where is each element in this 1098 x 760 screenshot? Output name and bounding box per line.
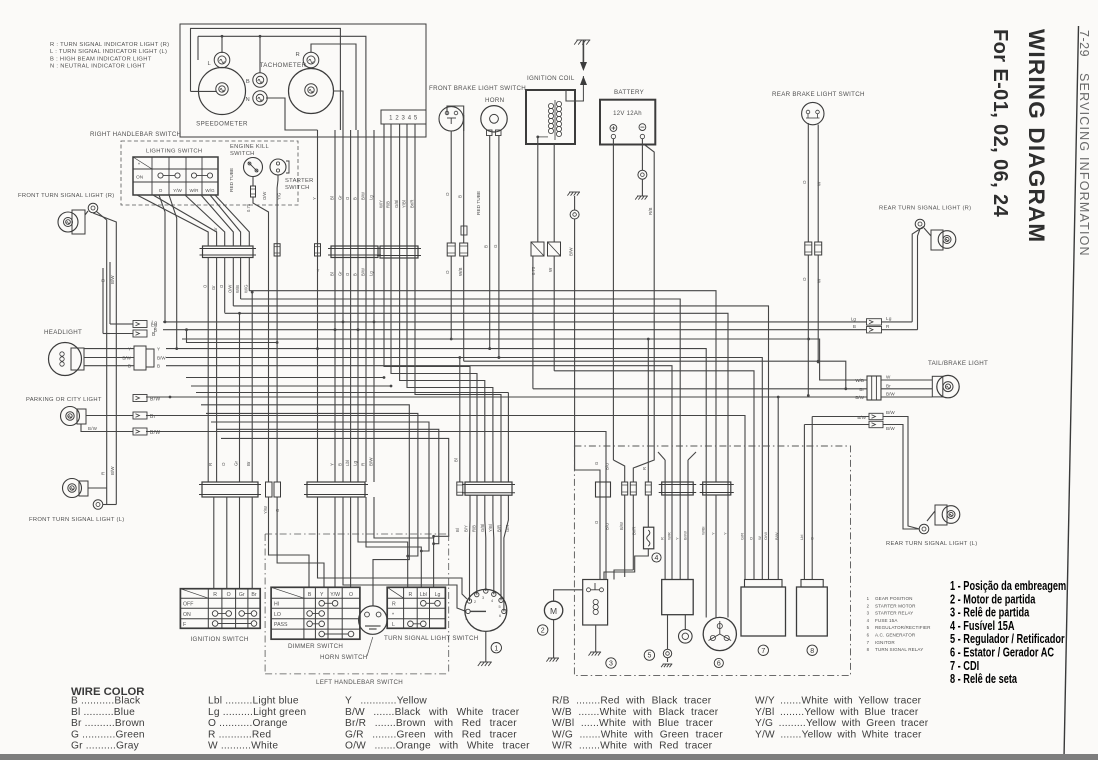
svg-text:HORN: HORN	[485, 97, 504, 104]
svg-text:O: O	[445, 270, 450, 274]
svg-text:Y/W: Y/W	[173, 188, 182, 193]
svg-text:W: W	[886, 375, 891, 380]
svg-text:Y/W: Y/W	[330, 592, 340, 598]
svg-text:Bl: Bl	[330, 196, 335, 200]
svg-text:Lg: Lg	[435, 592, 441, 598]
svg-text:SPEEDOMETER: SPEEDOMETER	[196, 121, 248, 128]
svg-text:Y: Y	[128, 347, 131, 352]
svg-text:R/B: R/B	[472, 525, 477, 532]
svg-text:GEAR POSITION: GEAR POSITION	[875, 596, 913, 601]
svg-text:SERVICING INFORMATION: SERVICING INFORMATION	[1077, 73, 1091, 257]
svg-text:6: 6	[499, 614, 501, 618]
svg-text:For E-01, 02, 06, 24: For E-01, 02, 06, 24	[989, 29, 1011, 218]
svg-text:B: B	[246, 79, 250, 85]
svg-text:W/Y .......White with Yellow t: W/Y .......White with Yellow tracer	[755, 696, 922, 707]
svg-text:8: 8	[810, 648, 814, 655]
svg-text:B/W .......Black with White: B/W .......Black with White tracer	[345, 707, 520, 718]
svg-text:W/B .......White with Black tr: W/B .......White with Black tracer	[552, 707, 719, 718]
svg-text:Lg: Lg	[369, 195, 374, 200]
svg-text:W/Bl ......White with Blue tra: W/Bl ......White with Blue tracer	[552, 718, 713, 729]
svg-text:Y/Bl: Y/Bl	[488, 524, 493, 532]
svg-text:TACHOMETER: TACHOMETER	[260, 62, 307, 69]
svg-text:Lg: Lg	[369, 271, 374, 276]
svg-text:L: L	[392, 622, 395, 628]
svg-text:Y/Bl: Y/Bl	[402, 200, 407, 208]
svg-text:HEADLIGHT: HEADLIGHT	[44, 329, 82, 336]
svg-text:B: B	[128, 364, 131, 369]
svg-text:Lg: Lg	[151, 320, 157, 326]
svg-text:Br/R: Br/R	[632, 527, 637, 535]
svg-text:PARKING OR CITY LIGHT: PARKING OR CITY LIGHT	[26, 397, 102, 403]
svg-text:Br/R: Br/R	[410, 200, 415, 208]
svg-text:B/O: B/O	[605, 522, 610, 530]
svg-text:G: G	[493, 244, 498, 248]
svg-text:STARTER MOTOR: STARTER MOTOR	[875, 603, 916, 608]
svg-text:B/W: B/W	[110, 466, 115, 475]
svg-text:Y: Y	[711, 532, 716, 535]
svg-text:2 - Motor de partida: 2 - Motor de partida	[950, 593, 1036, 607]
svg-text:B/O: B/O	[605, 462, 610, 470]
svg-text:ENGINE KILL: ENGINE KILL	[230, 144, 270, 150]
svg-text:Lg: Lg	[886, 316, 892, 321]
svg-text:Lbl: Lbl	[420, 592, 427, 598]
svg-text:IGNITION SWITCH: IGNITION SWITCH	[191, 636, 249, 643]
svg-text:W/B: W/B	[235, 285, 240, 293]
svg-text:B/W: B/W	[157, 356, 166, 361]
svg-text:SWITCH: SWITCH	[285, 185, 310, 191]
svg-text:REAR TURN SIGNAL LIGHT (R): REAR TURN SIGNAL LIGHT (R)	[879, 206, 971, 212]
svg-text:B/W: B/W	[569, 247, 574, 256]
svg-text:2: 2	[541, 628, 545, 635]
svg-text:IGNITION COIL: IGNITION COIL	[527, 75, 575, 82]
svg-text:B/W: B/W	[122, 356, 131, 361]
svg-text:5: 5	[498, 605, 500, 609]
svg-text:5: 5	[647, 653, 651, 660]
svg-text:Gr: Gr	[213, 227, 218, 232]
svg-text:R: R	[213, 592, 217, 598]
svg-text:W/G .......White with Green tr: W/G .......White with Green tracer	[552, 729, 723, 740]
svg-text:R/B: R/B	[386, 201, 391, 208]
svg-text:L : TURN SIGNAL INDICATOR LIGH: L : TURN SIGNAL INDICATOR LIGHT (L)	[50, 49, 167, 55]
svg-text:Y: Y	[317, 268, 320, 273]
svg-text:Y/Bl ........Yellow with Blue: Y/Bl ........Yellow with Blue tracer	[755, 707, 919, 718]
svg-text:R: R	[296, 52, 301, 58]
svg-text:ON: ON	[136, 175, 144, 181]
svg-text:B : HIGH BEAM INDICATOR LIGHT: B : HIGH BEAM INDICATOR LIGHT	[50, 56, 152, 62]
svg-text:B/W: B/W	[361, 192, 366, 200]
svg-text:STARTER: STARTER	[285, 178, 314, 184]
svg-text:4: 4	[655, 555, 659, 562]
svg-text:G/R ........Green with Red: G/R ........Green with Red tracer	[345, 729, 517, 740]
svg-text:B: B	[157, 364, 160, 369]
svg-text:*: *	[138, 163, 140, 169]
svg-text:R: R	[660, 537, 665, 540]
svg-text:*: *	[392, 613, 394, 619]
svg-text:0.75: 0.75	[246, 203, 251, 212]
svg-text:Br/R .......Brown with Red: Br/R .......Brown with Red tracer	[345, 718, 517, 729]
svg-text:W/R: W/R	[667, 532, 672, 540]
svg-text:Bl: Bl	[454, 458, 459, 462]
svg-text:Y: Y	[675, 537, 680, 540]
svg-text:3 - Relê de partida: 3 - Relê de partida	[950, 606, 1030, 620]
svg-text:FUSE 15A: FUSE 15A	[875, 618, 898, 623]
svg-text:RIGHT HANDLEBAR SWITCH: RIGHT HANDLEBAR SWITCH	[90, 131, 181, 138]
svg-text:O: O	[227, 592, 231, 598]
svg-text:Gr: Gr	[338, 195, 343, 200]
svg-text:Br: Br	[251, 592, 256, 598]
svg-text:8 - Relê de seta: 8 - Relê de seta	[950, 673, 1018, 687]
svg-text:Y: Y	[723, 532, 728, 535]
svg-text:O: O	[159, 188, 163, 193]
svg-text:SWITCH: SWITCH	[230, 151, 255, 157]
svg-text:1: 1	[465, 617, 467, 621]
svg-text:O/W: O/W	[228, 285, 233, 293]
svg-text:O: O	[802, 277, 807, 281]
svg-text:W/Bl: W/Bl	[701, 526, 706, 535]
svg-text:F: F	[183, 622, 186, 628]
svg-text:Lbl: Lbl	[799, 535, 804, 540]
svg-text:W/Y: W/Y	[379, 200, 384, 208]
svg-text:HORN SWITCH: HORN SWITCH	[320, 654, 368, 661]
svg-text:1: 1	[494, 645, 498, 652]
svg-text:IGNITOR: IGNITOR	[875, 640, 895, 645]
svg-text:B/W: B/W	[774, 532, 779, 540]
svg-text:4: 4	[491, 599, 493, 603]
svg-text:B/W: B/W	[886, 392, 895, 397]
svg-text:O: O	[749, 537, 754, 540]
svg-text:R/B: R/B	[648, 207, 653, 215]
svg-text:R ...........Red: R ...........Red	[208, 729, 271, 740]
svg-text:W: W	[757, 536, 762, 540]
svg-text:B: B	[353, 197, 358, 200]
svg-text:O: O	[802, 180, 807, 184]
svg-text:Lg ..........Light green: Lg ..........Light green	[208, 707, 306, 718]
svg-text:Lbl .........Light blue: Lbl .........Light blue	[208, 696, 299, 707]
svg-text:REGULATOR/RECTIFIER: REGULATOR/RECTIFIER	[875, 625, 931, 630]
svg-text:W/G: W/G	[244, 285, 249, 293]
svg-text:ON: ON	[183, 612, 191, 618]
svg-text:R : TURN SIGNAL INDICATOR LIGH: R : TURN SIGNAL INDICATOR LIGHT (R)	[50, 42, 169, 48]
svg-text:RED TUBE: RED TUBE	[476, 191, 482, 215]
svg-text:L: L	[207, 61, 211, 67]
svg-text:B ...........Black: B ...........Black	[71, 696, 141, 707]
svg-text:Br: Br	[246, 461, 251, 466]
svg-text:3: 3	[482, 596, 484, 600]
svg-text:R/B ........Red with Black tra: R/B ........Red with Black tracer	[552, 696, 712, 707]
svg-text:1 2 3 4 5: 1 2 3 4 5	[389, 116, 418, 122]
svg-text:M: M	[550, 606, 557, 616]
svg-text:Gr: Gr	[239, 592, 245, 598]
svg-text:W/R .......White with Red trac: W/R .......White with Red tracer	[552, 741, 713, 752]
svg-text:O: O	[349, 592, 353, 598]
svg-text:Br ..........Brown: Br ..........Brown	[71, 718, 145, 729]
svg-text:FRONT TURN SIGNAL LIGHT (R): FRONT TURN SIGNAL LIGHT (R)	[18, 193, 114, 199]
svg-text:7 - CDI: 7 - CDI	[950, 659, 979, 673]
svg-text:4 - Fusível 15A: 4 - Fusível 15A	[950, 620, 1014, 634]
svg-text:B: B	[458, 195, 463, 198]
svg-text:Br: Br	[150, 414, 156, 420]
svg-text:Br/W: Br/W	[683, 531, 688, 540]
svg-text:12V 12Ah: 12V 12Ah	[613, 111, 642, 117]
svg-text:B: B	[484, 245, 489, 248]
svg-text:Y: Y	[330, 463, 335, 466]
svg-text:Y/G: Y/G	[277, 193, 282, 200]
svg-text:Y: Y	[320, 592, 324, 598]
svg-text:B/W: B/W	[361, 268, 366, 276]
svg-text:O: O	[810, 537, 815, 540]
svg-text:HI: HI	[274, 602, 279, 608]
svg-text:DIMMER SWITCH: DIMMER SWITCH	[288, 643, 343, 650]
svg-text:G/Bl: G/Bl	[480, 524, 485, 532]
svg-text:B/W: B/W	[369, 457, 374, 466]
svg-text:W/G: W/G	[205, 188, 215, 193]
svg-text:Gr: Gr	[234, 460, 239, 466]
svg-text:B/W: B/W	[857, 415, 866, 420]
svg-text:O/W .......Orange with White t: O/W .......Orange with White tracer	[345, 741, 530, 752]
svg-text:TURN SIGNAL RELAY: TURN SIGNAL RELAY	[875, 647, 923, 652]
svg-text:Bl ..........Blue: Bl ..........Blue	[71, 707, 135, 718]
svg-text:3: 3	[609, 661, 613, 668]
svg-text:REAR TURN SIGNAL LIGHT (L): REAR TURN SIGNAL LIGHT (L)	[886, 541, 977, 547]
svg-text:Y: Y	[157, 347, 160, 352]
svg-text:R: R	[642, 467, 647, 470]
svg-text:RED TUBE: RED TUBE	[229, 168, 235, 192]
svg-text:O/W: O/W	[262, 192, 267, 200]
svg-text:R: R	[392, 602, 396, 608]
svg-text:N: N	[246, 97, 251, 103]
svg-text:Gr: Gr	[338, 271, 343, 276]
svg-text:B: B	[308, 592, 312, 598]
svg-text:W/B: W/B	[458, 268, 463, 277]
svg-text:6 - Estator / Gerador AC: 6 - Estator / Gerador AC	[950, 646, 1054, 660]
svg-text:Gr ..........Gray: Gr ..........Gray	[71, 741, 140, 752]
svg-text:B: B	[338, 463, 343, 466]
svg-text:OFF: OFF	[183, 602, 193, 608]
svg-text:W ..........White: W ..........White	[208, 741, 278, 752]
svg-text:O: O	[445, 192, 450, 196]
svg-text:B/W: B/W	[88, 426, 98, 431]
svg-text:Y/W: Y/W	[263, 506, 268, 514]
svg-text:TURN SIGNAL LIGHT SWITCH: TURN SIGNAL LIGHT SWITCH	[384, 635, 479, 642]
svg-text:R: R	[886, 324, 890, 329]
svg-text:N : NEUTRAL INDICATOR LIGHT: N : NEUTRAL INDICATOR LIGHT	[50, 64, 146, 70]
svg-text:5 - Regulador / Retificador: 5 - Regulador / Retificador	[950, 633, 1065, 647]
svg-text:FRONT TURN SIGNAL LIGHT (L): FRONT TURN SIGNAL LIGHT (L)	[29, 517, 125, 523]
svg-text:B/W: B/W	[150, 430, 160, 436]
svg-text:FRONT BRAKE LIGHT SWITCH: FRONT BRAKE LIGHT SWITCH	[429, 85, 526, 92]
svg-text:Bl: Bl	[455, 528, 460, 532]
svg-text:B/W: B/W	[886, 410, 895, 415]
svg-text:B/W: B/W	[886, 426, 895, 431]
svg-text:O: O	[221, 462, 226, 466]
svg-text:1 - Posição da embreagem: 1 - Posição da embreagem	[950, 580, 1066, 594]
svg-text:A.C. GENERATOR: A.C. GENERATOR	[875, 633, 916, 638]
svg-text:7-29: 7-29	[1077, 30, 1091, 57]
svg-text:Y: Y	[312, 197, 317, 200]
svg-text:B: B	[853, 324, 856, 329]
svg-text:TAIL/BRAKE LIGHT: TAIL/BRAKE LIGHT	[928, 360, 988, 367]
svg-text:Lbl: Lbl	[345, 460, 350, 466]
svg-text:Y/W .......Yellow with White t: Y/W .......Yellow with White tracer	[755, 729, 922, 740]
svg-text:7: 7	[761, 648, 765, 655]
svg-text:Y ............Yellow: Y ............Yellow	[345, 696, 427, 707]
svg-text:LIGHTING SWITCH: LIGHTING SWITCH	[146, 149, 202, 155]
svg-text:LEFT HANDLEBAR SWITCH: LEFT HANDLEBAR SWITCH	[316, 679, 403, 686]
svg-text:Gr: Gr	[211, 285, 216, 290]
svg-text:BATTERY: BATTERY	[614, 89, 644, 96]
svg-text:B/Y: B/Y	[463, 525, 468, 532]
svg-text:STARTER RELAY: STARTER RELAY	[875, 611, 913, 616]
svg-text:WIRING DIAGRAM: WIRING DIAGRAM	[1024, 29, 1049, 243]
svg-text:Br: Br	[886, 383, 891, 388]
svg-text:W/R: W/R	[190, 188, 200, 193]
svg-text:LO: LO	[274, 612, 281, 618]
svg-text:Y/G .........Yellow with Green: Y/G .........Yellow with Green tracer	[755, 718, 929, 729]
svg-text:B: B	[353, 273, 358, 276]
svg-text:R: R	[409, 592, 413, 598]
svg-text:B/W: B/W	[619, 522, 624, 530]
svg-text:REAR BRAKE LIGHT SWITCH: REAR BRAKE LIGHT SWITCH	[772, 91, 865, 98]
svg-text:G/R: G/R	[740, 533, 745, 540]
svg-text:Lg: Lg	[353, 460, 358, 466]
svg-text:O/W: O/W	[763, 532, 768, 540]
svg-text:G ...........Green: G ...........Green	[71, 729, 145, 740]
svg-text:Bl: Bl	[330, 272, 335, 276]
svg-text:B/W: B/W	[110, 275, 115, 284]
svg-text:2: 2	[474, 600, 476, 604]
svg-text:0.75: 0.75	[531, 266, 536, 275]
svg-text:G/Bl: G/Bl	[394, 200, 399, 208]
svg-text:6: 6	[717, 661, 721, 668]
svg-text:Lg: Lg	[851, 316, 857, 321]
svg-text:G: G	[594, 462, 599, 465]
svg-text:O ...........Orange: O ...........Orange	[208, 718, 288, 729]
svg-text:PASS: PASS	[274, 622, 288, 628]
